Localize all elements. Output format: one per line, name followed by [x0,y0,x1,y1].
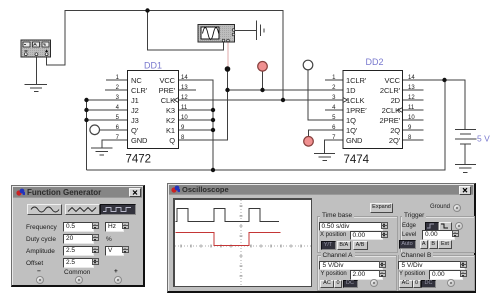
Channel A group [317,255,397,291]
Time base group [317,216,398,253]
function generator icon [21,40,51,57]
DD1 pin names [131,76,176,145]
wire VCC K bus DD1 [179,80,214,170]
svg-text:12: 12 [181,95,188,101]
probe red node 2 [304,137,314,147]
wire J bus DD1 [87,100,128,170]
svg-text:1PRE′: 1PRE′ [346,106,367,115]
junction red probe on 1D line [260,88,264,92]
svg-text:Q: Q [169,136,175,145]
wire scope channel A from top rail [148,11,224,51]
svg-text:J2: J2 [131,106,139,115]
probe white node Q' DD1 [90,125,100,135]
svg-text:11: 11 [181,105,188,111]
svg-text:10: 10 [181,115,188,121]
DD2 pin numbers 1-7 / 14-8 [332,75,415,141]
svg-text:2CLK: 2CLK [382,106,400,115]
svg-text:1CLR′: 1CLR′ [346,76,367,85]
junction J3 on J bus [84,118,88,122]
svg-text:10: 10 [408,115,415,121]
svg-text:13: 13 [181,85,188,91]
svg-text:2Q: 2Q [390,126,400,135]
wire FG output to top rail and down to CLK node [47,11,284,101]
screen [173,198,312,287]
svg-text:K3: K3 [166,106,175,115]
Trigger group [400,216,475,253]
wire DD2 1PRE' stub [325,109,343,111]
Channel B group [398,255,475,291]
clock arrow DD1 pin12 [174,98,179,103]
DD1 pin numbers 1-7 / 14-8 [116,75,189,141]
Oscilloscope window [167,183,476,293]
wire white probe to 1Q [308,70,343,120]
svg-text:5 V: 5 V [477,134,490,144]
oscilloscope icon [198,25,235,43]
wire red probe to 1D line [262,71,264,90]
junction VCC bus on +5V rail [211,168,215,172]
svg-text:2CLR′: 2CLR′ [380,86,401,95]
wire DD2 1CLR' stub [325,79,343,81]
svg-text:13: 13 [408,85,415,91]
svg-text:1Q′: 1Q′ [346,126,358,135]
svg-text:J1: J1 [131,96,139,105]
wire FG common to ground [36,56,38,84]
junction K3 on VCC bus [211,108,215,112]
probe white node 1Q [303,60,313,70]
svg-text:14: 14 [408,75,415,81]
wire DD2 right stubs [403,90,424,140]
clock arrow DD2 pin11 [398,108,403,113]
svg-text:PRE′: PRE′ [159,86,176,95]
svg-text:K1: K1 [166,126,175,135]
junction J2 on J bus [84,108,88,112]
wire DD1 NC stub [106,79,128,81]
DD2 pin names [346,76,401,145]
IC DD2 7474 [332,57,415,166]
wire DD1 CLR' stub [105,89,128,91]
wire Q of DD1 up to scope node [179,69,228,140]
svg-text:1D: 1D [346,86,356,95]
Expand button [370,203,393,213]
battery 5V [455,130,477,145]
channel A black square wave [176,208,280,221]
ground (DD2) [314,154,335,161]
wire red probe 2 to 1Q' [309,130,344,137]
svg-text:1Q: 1Q [346,116,356,125]
svg-text:14: 14 [181,75,188,81]
junction scope channel A tap on top rail [145,8,149,12]
svg-text:GND: GND [131,136,148,145]
svg-text:DD2: DD2 [366,57,384,67]
svg-text:1CLK: 1CLK [346,96,364,105]
wire battery to ground [464,145,466,165]
svg-text:VCC: VCC [384,76,400,85]
svg-text:NC: NC [131,76,142,85]
ground (battery) [455,165,476,173]
wire DD1 PRE' stub [179,89,197,91]
svg-text:7472: 7472 [126,154,152,166]
ground (scope, rotated) [257,21,265,41]
wire DD1 GND to ground [102,140,128,148]
ground (DD1) [91,148,113,155]
svg-text:11: 11 [408,105,415,111]
svg-text:VCC: VCC [159,76,175,85]
junction +5V rail on VCC wire [442,78,446,82]
svg-text:Q′: Q′ [131,126,139,135]
junction K2 on VCC bus [211,118,215,122]
node scope channel B to Q wire [225,66,231,72]
wire CLK line DD1 pin12 to DD2 pin3 [179,99,344,101]
svg-text:7474: 7474 [344,154,370,166]
svg-text:12: 12 [408,95,415,101]
svg-text:CLR′: CLR′ [131,86,148,95]
svg-text:K2: K2 [166,116,175,125]
wire bottom +5V rail [87,80,446,170]
junction FG output on CLK line [281,98,285,102]
probe red node 1 [258,62,268,72]
Function Generator window [11,185,145,287]
wire node to 1D of DD2 [228,89,344,91]
ground (function generator) [25,85,48,92]
junction K1 on VCC bus [211,128,215,132]
clock arrow DD2 pin3 [343,98,348,103]
wire DD2 GND to ground [325,140,344,153]
svg-text:DD1: DD1 [144,61,162,71]
wire white probe Q' DD1 [100,129,128,131]
svg-text:J3: J3 [131,116,139,125]
IC DD1 7472 [116,61,189,166]
wire DD2 VCC to battery [403,80,466,129]
svg-text:CLK: CLK [161,96,175,105]
wire scope channel B red segment [227,42,229,68]
svg-text:GND: GND [346,136,363,145]
wire scope ground terminal [235,30,257,32]
svg-text:2Q′: 2Q′ [389,136,401,145]
junction J1 on J bus [84,98,88,102]
channel B red square wave [176,232,281,245]
svg-text:2PRE′: 2PRE′ [380,116,401,125]
svg-text:2D: 2D [391,96,401,105]
junction Q wire to 1D line [225,88,229,92]
